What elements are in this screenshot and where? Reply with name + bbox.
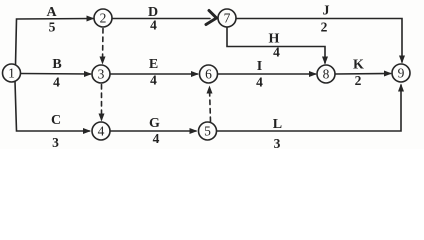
dashed dummy arrow 2 to 3	[100, 29, 106, 65]
node 1	[3, 64, 21, 82]
svg-text:I: I	[257, 59, 262, 74]
svg-text:5: 5	[49, 20, 56, 35]
svg-text:6: 6	[205, 67, 212, 82]
node 4	[92, 122, 110, 140]
wire activity B (1 to 3) with label B/4	[21, 57, 93, 90]
svg-text:2: 2	[100, 11, 107, 26]
svg-text:7: 7	[224, 11, 231, 26]
node 7	[218, 9, 236, 27]
svg-text:C: C	[51, 113, 61, 128]
svg-text:4: 4	[150, 73, 157, 88]
svg-text:4: 4	[256, 75, 263, 90]
svg-text:A: A	[46, 5, 57, 20]
svg-text:E: E	[149, 57, 158, 72]
svg-text:2: 2	[321, 20, 328, 35]
wire activity G (4 to 5) with label G/4	[111, 116, 198, 146]
wire activity J (7 to 9) with label J/2	[236, 4, 405, 64]
svg-text:4: 4	[153, 131, 160, 146]
node 2	[94, 9, 112, 27]
svg-text:K: K	[353, 58, 364, 73]
node 8	[317, 65, 335, 83]
svg-text:4: 4	[150, 18, 157, 33]
node 3	[92, 65, 110, 83]
svg-text:2: 2	[355, 73, 362, 88]
wire activity A (1 to 2) with label A/5	[16, 5, 95, 65]
svg-text:5: 5	[204, 124, 211, 139]
svg-text:3: 3	[52, 135, 59, 149]
svg-text:8: 8	[323, 67, 330, 82]
svg-text:1: 1	[8, 66, 15, 81]
node 6	[200, 65, 218, 83]
wire activity K (8 to 9) with label K/2	[336, 58, 393, 89]
svg-text:4: 4	[98, 124, 105, 139]
svg-text:3: 3	[98, 67, 105, 82]
svg-text:B: B	[52, 57, 61, 72]
wire activity C (1 to 4) with label C/3	[15, 82, 91, 151]
svg-text:4: 4	[273, 45, 280, 60]
wire activity L (5 to 9) with label L/3	[217, 84, 405, 152]
dashed dummy arrow 3 to 4	[99, 85, 105, 122]
svg-text:G: G	[149, 116, 160, 131]
svg-text:4: 4	[53, 75, 60, 90]
svg-text:L: L	[273, 117, 282, 132]
svg-text:9: 9	[398, 66, 405, 81]
svg-text:3: 3	[274, 136, 281, 149]
wire activity I (6 to 8) with label I/4	[218, 59, 318, 90]
dashed dummy arrow 5 to 6	[207, 86, 213, 122]
node 9	[392, 64, 410, 82]
wire activity E (3 to 6) with label E/4	[111, 57, 200, 88]
wire activity D (2 to 7) with label D/4, bold hand-drawn arrowhead	[112, 5, 217, 33]
svg-text:J: J	[323, 4, 330, 19]
node 5	[199, 122, 217, 140]
wire activity H (7 to 8) with label H/4	[227, 28, 328, 65]
